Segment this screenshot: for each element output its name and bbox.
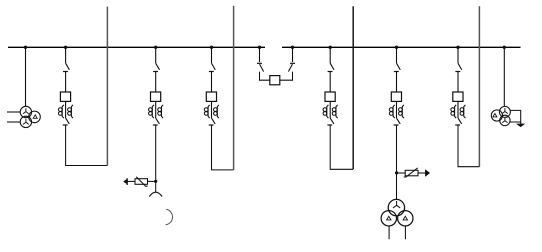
wire bay R1 to breaker <box>329 72 331 93</box>
disconnector QS11 fixed contact <box>63 71 68 73</box>
disconnector QS31 fixed contact <box>209 71 214 73</box>
wire bay A to breaker <box>65 72 67 93</box>
node bay A busbar junction <box>64 46 67 49</box>
current transformer TA2 right cores <box>158 105 163 118</box>
wire T1 drop <box>25 47 27 106</box>
disconnector QS01 fixed contact <box>257 62 262 64</box>
node bay R2 busbar junction <box>395 46 398 49</box>
wire T2 neutral to earth <box>510 110 521 122</box>
current transformer TA1 right cores <box>68 105 73 118</box>
wire bay R3 loop to line L4 <box>458 125 479 167</box>
disconnector QS02 blade <box>288 64 292 72</box>
surge arrester F1 varistor stroke <box>136 177 147 186</box>
circuit breaker QF6 <box>453 92 463 101</box>
current transformer TA3 right cores <box>214 105 219 118</box>
circuit breaker QF4 <box>325 92 335 101</box>
wire T1 secondary stub lower <box>7 121 20 123</box>
disconnector QS52 fixed contact <box>394 124 399 126</box>
disconnector QS21 blade <box>156 63 160 70</box>
current transformer TA5 left cores <box>389 105 394 118</box>
wire T1 secondary stub upper <box>7 111 20 113</box>
wire bay B through CTs <box>155 101 157 118</box>
busbar W2 (right section) <box>282 46 521 48</box>
transformer T3 LV winding 1 <box>381 211 396 226</box>
wire bay B down to cable termination <box>155 125 157 192</box>
ground electrode of F2 (bar and arrow) <box>425 170 427 176</box>
node bay B arrester tap <box>154 180 157 183</box>
current transformer TA6 left cores <box>451 105 456 118</box>
wire bay C to breaker <box>211 72 213 93</box>
wire bay B to breaker <box>155 72 157 93</box>
transformer T1 HV winding <box>20 106 31 117</box>
cable termination (earth arc) bay B <box>149 192 162 196</box>
wire bay R2 bus drop <box>396 47 398 63</box>
circuit breaker QF5 <box>391 92 401 101</box>
transformer T2 LV winding <box>500 115 510 125</box>
wire bay C bus drop <box>211 47 213 63</box>
disconnector QS12 blade <box>66 118 70 124</box>
transformer T2 tertiary winding <box>491 110 502 121</box>
current transformer TA1 left cores <box>58 105 63 118</box>
wire bay R1 through CTs <box>329 101 331 118</box>
wire bay A through CTs <box>65 101 67 118</box>
disconnector QS51 blade <box>397 63 401 70</box>
wire bay B bus drop <box>155 47 157 63</box>
disconnector QS62 fixed contact <box>455 124 460 126</box>
wire bay R3 to breaker <box>457 72 459 93</box>
wire bay R2 to breaker <box>396 72 398 93</box>
wire bay A loop to line L1 <box>66 125 108 166</box>
transformer T2 HV winding <box>499 106 510 117</box>
wire T2 drop <box>503 47 505 106</box>
node bay R2 arrester tap <box>395 171 398 174</box>
ground symbol (filled triangle) <box>517 124 525 127</box>
wire earth stem <box>520 122 522 124</box>
wire bay R1 loop to line L3 <box>330 125 353 169</box>
current transformer TA6 right cores <box>460 105 465 118</box>
circuit breaker QF2 <box>151 92 161 101</box>
node bay B busbar junction <box>154 46 157 49</box>
disconnector QS61 fixed contact <box>455 71 460 73</box>
wire tie right from breaker <box>280 72 293 81</box>
disconnector QS11 blade <box>66 63 70 70</box>
circuit breaker QF1 <box>60 92 70 101</box>
ground electrode of F1 (arrow and bar) <box>126 178 128 185</box>
wire bay R1 bus drop <box>329 47 331 63</box>
surge arrester F2 body <box>405 170 418 176</box>
bus tie breaker QF0 <box>270 76 280 85</box>
circuit breaker QF3 <box>206 92 216 101</box>
surge arrester F1 body <box>135 179 148 185</box>
wire outgoing line L1 <box>106 7 108 166</box>
disconnector QS41 fixed contact <box>328 71 333 73</box>
disconnector QS52 blade <box>397 118 401 124</box>
disconnector QS62 blade <box>458 118 462 124</box>
wire bay R2 down to transformer T3 <box>396 125 398 199</box>
disconnector QS22 blade <box>156 118 160 124</box>
disconnector QS32 fixed contact <box>209 124 214 126</box>
node bus tie right junction <box>291 46 294 49</box>
wire T3 LV1 lead down <box>388 226 390 239</box>
busbar W1 (left section) <box>8 46 265 48</box>
wire arrester F1 lead <box>127 180 135 182</box>
wire tie left drop <box>259 47 261 62</box>
node bay R3 busbar junction <box>456 46 459 49</box>
disconnector QS02 fixed contact <box>290 62 295 64</box>
disconnector QS61 blade <box>458 63 462 70</box>
wire bay R2 through CTs <box>396 101 398 118</box>
transformer T3 HV winding <box>388 199 404 215</box>
arc mark (cable loop) <box>166 209 173 225</box>
disconnector QS32 blade <box>212 118 216 124</box>
disconnector QS42 blade <box>330 118 334 124</box>
current transformer TA2 left cores <box>149 105 154 118</box>
transformer T1 tertiary winding <box>29 111 41 123</box>
transformer T3 LV winding 2 <box>398 211 413 226</box>
disconnector QS01 blade <box>260 64 264 72</box>
wire bay C loop to line L2 <box>212 125 234 170</box>
wire bay R3 bus drop <box>457 47 459 63</box>
disconnector QS12 fixed contact <box>63 124 68 126</box>
disconnector QS21 fixed contact <box>153 71 158 73</box>
node bay C busbar junction <box>210 46 213 49</box>
surge arrester F2 varistor stroke <box>404 168 418 177</box>
wire bay R3 through CTs <box>457 101 459 118</box>
disconnector QS22 fixed contact <box>153 124 158 126</box>
wire outgoing line L4 <box>478 6 480 166</box>
node T2 busbar junction <box>503 46 506 49</box>
wire bay C through CTs <box>211 101 213 118</box>
current transformer TA4 right cores <box>332 105 337 118</box>
wire tie left to breaker <box>260 72 270 81</box>
wire outgoing line L3 <box>352 6 354 169</box>
disconnector QS31 blade <box>212 63 216 70</box>
disconnector QS42 fixed contact <box>327 124 332 126</box>
node bus tie left junction <box>258 46 261 49</box>
current transformer TA4 left cores <box>323 105 328 118</box>
current transformer TA5 right cores <box>399 105 404 118</box>
node T1 busbar junction <box>24 46 27 49</box>
transformer T1 LV winding <box>20 116 31 127</box>
wire outgoing line L2 <box>233 6 235 170</box>
node bay R1 busbar junction <box>329 46 332 49</box>
wire tie right drop <box>292 47 294 62</box>
wire bay A bus drop <box>65 47 67 63</box>
wire T3 LV2 lead down <box>404 226 406 239</box>
wire arrester F2 lead <box>397 172 406 174</box>
disconnector QS51 fixed contact <box>394 71 399 73</box>
current transformer TA3 left cores <box>204 105 209 118</box>
disconnector QS41 blade <box>330 63 334 70</box>
